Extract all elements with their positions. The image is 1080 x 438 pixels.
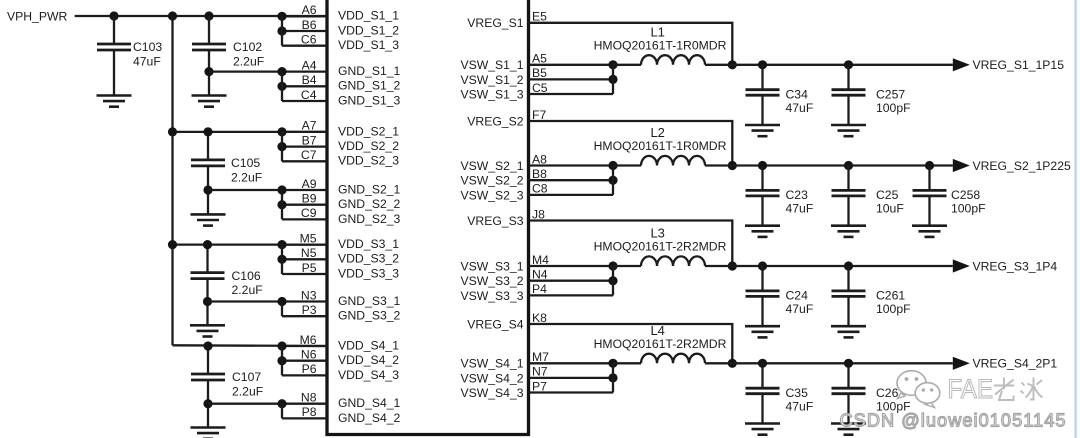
svg-text:2.2uF: 2.2uF — [232, 283, 263, 297]
capacitor C105 2.2uF — [191, 132, 262, 215]
svg-text:47uF: 47uF — [786, 302, 814, 316]
junction C102 tap — [204, 11, 213, 20]
svg-text:VDD_S3_3: VDD_S3_3 — [338, 266, 399, 280]
svg-text:N6: N6 — [301, 348, 317, 362]
svg-text:P6: P6 — [302, 362, 317, 376]
capacitor C23 47uF — [746, 166, 814, 226]
junction C35 tap — [758, 359, 767, 368]
svg-text:A8: A8 — [532, 152, 547, 166]
capacitor C107 2.2uF — [191, 346, 263, 428]
svg-text:C7: C7 — [301, 148, 317, 162]
watermark FAE logo text — [948, 374, 1043, 404]
svg-text:P8: P8 — [302, 405, 317, 419]
pin P8 — [282, 405, 327, 419]
svg-text:VSW_S2_3: VSW_S2_3 — [460, 188, 523, 202]
svg-text:HMOQ20161T-1R0MDR: HMOQ20161T-1R0MDR — [594, 38, 727, 52]
svg-text:VDD_S3_1: VDD_S3_1 — [338, 237, 399, 251]
capacitor C102 2.2uF — [192, 16, 264, 96]
svg-text:HMOQ20161T-2R2MDR: HMOQ20161T-2R2MDR — [594, 337, 727, 351]
wire VDD_S4 feed — [173, 344, 328, 347]
svg-text:C102: C102 — [233, 40, 262, 54]
pin F7 (VREG_S2) — [529, 108, 733, 166]
junction C25 tap — [844, 161, 853, 170]
svg-text:VSW_S2_1: VSW_S2_1 — [460, 159, 523, 173]
svg-text:VSW_S1_3: VSW_S1_3 — [460, 87, 523, 101]
svg-text:A4: A4 — [302, 58, 317, 72]
ground (C34) — [745, 125, 780, 136]
net arrow VREG_S4_2P1 — [953, 357, 970, 370]
pin C8 — [529, 182, 614, 196]
junction N6 bracket — [277, 356, 286, 365]
junction rail-S3 — [168, 240, 177, 249]
svg-text:CSDN @luowei01051145: CSDN @luowei01051145 — [840, 411, 1066, 431]
pin B4 — [282, 73, 327, 87]
svg-text:100pF: 100pF — [876, 101, 911, 115]
junction rail tap — [168, 11, 177, 20]
svg-text:VSW_S3_3: VSW_S3_3 — [460, 289, 523, 303]
svg-text:N7: N7 — [532, 365, 548, 379]
svg-text:N3: N3 — [301, 288, 317, 302]
svg-text:B8: B8 — [532, 167, 547, 181]
svg-text:C258: C258 — [951, 188, 980, 202]
wire VDD_S2 feed — [173, 131, 328, 133]
junction N4 bracket — [608, 276, 617, 285]
junction C107 tap — [203, 341, 212, 350]
wire pin bracket — [281, 16, 283, 45]
pin B9 — [282, 192, 327, 206]
svg-text:M6: M6 — [300, 333, 317, 347]
svg-text:GND_S1_3: GND_S1_3 — [338, 93, 401, 107]
pin E5 (VREG_S1) — [529, 10, 733, 65]
pin N5 — [282, 246, 327, 260]
junction C263 tap — [844, 359, 853, 368]
ground (C35) — [745, 424, 780, 435]
svg-text:VREG_S1: VREG_S1 — [467, 16, 523, 30]
svg-text:FAE: FAE — [948, 374, 994, 404]
junction GND_S2 — [203, 185, 212, 194]
svg-text:VDD_S2_1: VDD_S2_1 — [338, 124, 399, 138]
svg-text:N5: N5 — [301, 246, 317, 260]
ground (C257) — [831, 125, 866, 136]
wire GND_S1 feed — [209, 70, 282, 72]
svg-text:P4: P4 — [532, 282, 547, 296]
pin P7 — [529, 379, 614, 393]
pin C7 — [282, 148, 327, 162]
inductor L4 HMOQ20161T-2R2MDR — [594, 323, 727, 364]
svg-text:VREG_S4: VREG_S4 — [467, 317, 523, 331]
wire VSW to L1 — [613, 64, 641, 66]
svg-text:VDD_S1_3: VDD_S1_3 — [338, 38, 399, 52]
capacitor C263 100pF — [832, 363, 911, 423]
svg-text:47uF: 47uF — [786, 202, 814, 216]
ground (C102) — [192, 96, 227, 107]
svg-text:B5: B5 — [532, 66, 547, 80]
capacitor C257 100pF — [832, 65, 911, 125]
junction VREG_S1 sense — [728, 60, 737, 69]
wire VSW to L4 — [613, 362, 641, 364]
pin A9 — [282, 177, 327, 191]
svg-text:GND_S2_3: GND_S2_3 — [338, 212, 401, 226]
svg-text:VSW_S3_1: VSW_S3_1 — [460, 259, 523, 273]
ground (C107) — [191, 428, 226, 438]
capacitor C258 100pF — [913, 166, 986, 226]
svg-text:C24: C24 — [786, 289, 809, 303]
ground (C261) — [831, 326, 866, 337]
net arrow VREG_S2_1P225 — [953, 159, 970, 172]
ground (C25) — [831, 226, 866, 237]
svg-text:100pF: 100pF — [951, 202, 986, 216]
ground (C103) — [97, 96, 132, 107]
junction GND_S4 — [203, 399, 212, 408]
svg-text:C107: C107 — [232, 370, 261, 384]
pin A7 — [282, 119, 327, 133]
pin B6 — [282, 18, 327, 32]
pin A8 — [529, 152, 614, 166]
junction C103 tap — [109, 11, 118, 20]
junction M6 bracket — [277, 341, 286, 350]
svg-text:VSW_S4_3: VSW_S4_3 — [460, 386, 523, 400]
svg-text:E5: E5 — [532, 10, 547, 24]
svg-text:C4: C4 — [301, 88, 317, 102]
capacitor C34 47uF — [746, 65, 814, 125]
junction M4 bracket — [608, 261, 617, 270]
capacitor C103 47uF — [97, 16, 162, 96]
svg-text:B9: B9 — [302, 192, 317, 206]
inductor L3 HMOQ20161T-2R2MDR — [594, 226, 727, 267]
junction B4 bracket — [277, 82, 286, 91]
svg-text:GND_S4_1: GND_S4_1 — [338, 396, 401, 410]
wire VSW to L2 — [613, 164, 641, 166]
junction N5 bracket — [277, 255, 286, 264]
pin N7 — [529, 365, 614, 379]
svg-text:M4: M4 — [532, 253, 549, 267]
wire pin bracket — [281, 346, 283, 375]
svg-text:C9: C9 — [301, 206, 317, 220]
pin K8 (VREG_S4) — [529, 311, 733, 364]
capacitor C106 2.2uF — [191, 245, 263, 326]
svg-text:VDD_S4_1: VDD_S4_1 — [338, 338, 399, 352]
inductor L2 HMOQ20161T-1R0MDR — [594, 125, 727, 166]
svg-text:B6: B6 — [302, 18, 317, 32]
junction B5 bracket — [608, 75, 617, 84]
junction A4 bracket — [277, 67, 286, 76]
svg-text:47uF: 47uF — [133, 54, 161, 68]
pin B5 — [529, 66, 614, 80]
svg-text:VSW_S4_2: VSW_S4_2 — [460, 371, 523, 385]
svg-text:GND_S2_2: GND_S2_2 — [338, 197, 401, 211]
watermark WeChat icon — [897, 371, 940, 408]
junction M7 bracket — [608, 359, 617, 368]
capacitor C35 47uF — [746, 363, 814, 423]
junction B9 bracket — [277, 200, 286, 209]
svg-text:C105: C105 — [231, 156, 260, 170]
svg-text:GND_S1_1: GND_S1_1 — [338, 64, 401, 78]
wire pin bracket — [281, 245, 283, 274]
pin M6 — [282, 333, 327, 347]
junction N3 bracket — [277, 297, 286, 306]
svg-text:P5: P5 — [302, 261, 317, 275]
junction C261 tap — [844, 261, 853, 270]
wire GND_S2 feed — [208, 189, 282, 191]
svg-text:K8: K8 — [532, 311, 547, 325]
svg-text:C261: C261 — [876, 289, 905, 303]
wire VDD_S3 feed — [173, 243, 328, 245]
wire pin bracket — [281, 302, 283, 317]
wire VREG_S3_1P4 output — [705, 265, 953, 267]
pin C9 — [282, 206, 327, 220]
IC U1 body — [327, 0, 529, 435]
wire pin bracket — [281, 72, 283, 101]
svg-text:VREG_S2: VREG_S2 — [467, 114, 523, 128]
svg-text:GND_S2_1: GND_S2_1 — [338, 182, 401, 196]
capacitor C261 100pF — [832, 266, 911, 326]
junction GND_S3 — [203, 297, 212, 306]
svg-text:VDD_S2_3: VDD_S2_3 — [338, 154, 399, 168]
pin A6 — [282, 3, 327, 17]
capacitor C25 10uF — [832, 166, 904, 226]
wire VREG_S1_1P15 output — [705, 64, 953, 66]
wire GND_S3 feed — [208, 300, 283, 302]
svg-text:C103: C103 — [133, 40, 162, 54]
junction A5 bracket — [608, 60, 617, 69]
svg-text:P7: P7 — [532, 379, 547, 393]
svg-text:VDD_S2_2: VDD_S2_2 — [338, 139, 399, 153]
net arrow VREG_S3_1P4 — [953, 259, 970, 272]
svg-text:P3: P3 — [302, 303, 317, 317]
svg-text:VREG_S2_1P225: VREG_S2_1P225 — [973, 159, 1071, 173]
wire pin bracket — [281, 404, 283, 419]
wire GND_S4 feed — [208, 403, 282, 405]
ground (C106) — [190, 325, 225, 336]
wire VSW bracket — [612, 363, 614, 392]
svg-text:B4: B4 — [302, 73, 317, 87]
junction M5 bracket — [277, 240, 286, 249]
svg-text:VDD_S3_2: VDD_S3_2 — [338, 252, 399, 266]
svg-text:VDD_S4_2: VDD_S4_2 — [338, 353, 399, 367]
svg-text:A6: A6 — [302, 3, 317, 17]
pin N3 — [282, 288, 327, 302]
junction B6 bracket — [277, 26, 286, 35]
pin C4 — [282, 88, 327, 102]
pin N4 — [529, 268, 614, 282]
svg-text:C23: C23 — [786, 188, 809, 202]
svg-text:C8: C8 — [532, 182, 548, 196]
svg-text:L3: L3 — [650, 226, 664, 241]
net arrow VREG_S1_1P15 — [953, 58, 970, 71]
ground (C105) — [191, 214, 226, 225]
pin C5 — [529, 81, 614, 95]
pin B7 — [282, 133, 327, 147]
wire pin bracket — [281, 190, 283, 219]
svg-text:47uF: 47uF — [786, 399, 814, 413]
junction rail-S2 — [168, 127, 177, 136]
junction C106 tap — [203, 240, 212, 249]
inductor L1 HMOQ20161T-1R0MDR — [594, 24, 727, 65]
pin B8 — [529, 167, 614, 181]
svg-text:A9: A9 — [302, 177, 317, 191]
svg-text:M7: M7 — [532, 350, 549, 364]
svg-text:A7: A7 — [302, 119, 317, 133]
junction B7 bracket — [277, 142, 286, 151]
svg-text:VSW_S3_2: VSW_S3_2 — [460, 274, 523, 288]
svg-text:VSW_S4_1: VSW_S4_1 — [460, 357, 523, 371]
pin A4 — [282, 58, 327, 72]
svg-text:B7: B7 — [302, 133, 317, 147]
junction A9 bracket — [277, 185, 286, 194]
svg-text:HMOQ20161T-2R2MDR: HMOQ20161T-2R2MDR — [594, 240, 727, 254]
junction C24 tap — [758, 261, 767, 270]
ground (C23) — [745, 226, 780, 237]
svg-text:VPH_PWR: VPH_PWR — [7, 10, 67, 24]
svg-text:VDD_S1_1: VDD_S1_1 — [338, 9, 399, 23]
svg-text:F7: F7 — [532, 108, 546, 122]
pin N6 — [282, 348, 327, 362]
wire VSW bracket — [612, 65, 614, 94]
pin J8 (VREG_S3) — [529, 207, 733, 266]
svg-text:J8: J8 — [532, 207, 545, 221]
ground (C263) — [831, 424, 866, 435]
svg-text:A5: A5 — [532, 52, 547, 66]
junction A6 bracket — [277, 12, 286, 21]
junction C257 tap — [844, 60, 853, 69]
svg-text:L2: L2 — [650, 125, 664, 140]
wire VSW to L3 — [613, 265, 641, 267]
svg-text:GND_S4_2: GND_S4_2 — [338, 411, 401, 425]
svg-text:GND_S1_2: GND_S1_2 — [338, 79, 401, 93]
svg-text:HMOQ20161T-1R0MDR: HMOQ20161T-1R0MDR — [594, 139, 727, 153]
pin M7 — [529, 350, 614, 364]
junction C105 tap — [203, 127, 212, 136]
junction N7 bracket — [608, 373, 617, 382]
svg-text:VREG_S4_2P1: VREG_S4_2P1 — [973, 357, 1058, 371]
svg-text:L1: L1 — [650, 24, 664, 39]
ground (C258) — [912, 226, 947, 237]
svg-text:L4: L4 — [650, 323, 664, 338]
junction B8 bracket — [608, 176, 617, 185]
wire VDD distribution rail — [171, 16, 173, 345]
svg-text:VSW_S1_2: VSW_S1_2 — [460, 73, 523, 87]
wire VREG_S4_2P1 output — [705, 362, 953, 364]
svg-text:C5: C5 — [532, 81, 548, 95]
svg-text:GND_S3_1: GND_S3_1 — [338, 294, 401, 308]
junction VREG_S4 sense — [728, 359, 737, 368]
ground (C24) — [745, 326, 780, 337]
junction GND_S1 — [204, 67, 213, 76]
pin P4 — [529, 282, 614, 296]
wire VSW bracket — [612, 166, 614, 195]
junction VREG_S3 sense — [728, 261, 737, 270]
svg-text:N8: N8 — [301, 391, 317, 405]
junction A8 bracket — [608, 161, 617, 170]
svg-text:C257: C257 — [876, 87, 905, 101]
svg-text:2.2uF: 2.2uF — [231, 170, 262, 184]
svg-text:10uF: 10uF — [876, 202, 904, 216]
svg-text:VREG_S3: VREG_S3 — [467, 214, 523, 228]
svg-text:VREG_S1_1P15: VREG_S1_1P15 — [973, 58, 1065, 72]
pin N8 — [282, 391, 327, 405]
junction C258 tap — [925, 161, 934, 170]
svg-text:C25: C25 — [876, 188, 899, 202]
pin P3 — [282, 303, 327, 317]
svg-text:C34: C34 — [786, 87, 809, 101]
svg-text:M5: M5 — [300, 231, 317, 245]
junction C34 tap — [758, 60, 767, 69]
svg-text:VREG_S3_1P4: VREG_S3_1P4 — [973, 259, 1058, 273]
junction A7 bracket — [277, 127, 286, 136]
svg-text:GND_S3_2: GND_S3_2 — [338, 309, 401, 323]
pin A5 — [529, 52, 614, 66]
svg-text:VDD_S4_3: VDD_S4_3 — [338, 368, 399, 382]
pin C6 — [282, 33, 327, 47]
pin M5 — [282, 231, 327, 245]
pin P5 — [282, 261, 327, 275]
pin M4 — [529, 253, 614, 267]
junction N8 bracket — [277, 399, 286, 408]
wire pin bracket — [281, 132, 283, 161]
wire VSW bracket — [612, 266, 614, 295]
svg-text:2.2uF: 2.2uF — [232, 384, 263, 398]
wire VREG_S2_1P225 output — [705, 164, 953, 166]
svg-text:C6: C6 — [301, 33, 317, 47]
svg-text:VDD_S1_2: VDD_S1_2 — [338, 23, 399, 37]
svg-text:VSW_S1_1: VSW_S1_1 — [460, 58, 523, 72]
svg-text:100pF: 100pF — [876, 302, 911, 316]
wire VPH_PWR rail — [75, 15, 327, 17]
capacitor C24 47uF — [746, 266, 814, 326]
svg-text:C35: C35 — [786, 386, 809, 400]
junction C23 tap — [758, 161, 767, 170]
pin P6 — [282, 362, 327, 376]
svg-text:47uF: 47uF — [786, 101, 814, 115]
svg-text:N4: N4 — [532, 268, 548, 282]
svg-text:2.2uF: 2.2uF — [233, 54, 264, 68]
junction VREG_S2 sense — [728, 161, 737, 170]
svg-text:VSW_S2_2: VSW_S2_2 — [460, 174, 523, 188]
svg-text:C106: C106 — [232, 269, 261, 283]
